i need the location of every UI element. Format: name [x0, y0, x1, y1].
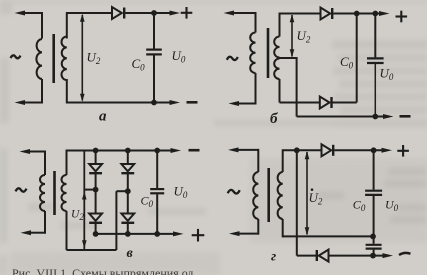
- svg-text:в: в: [127, 246, 134, 261]
- wire from node down to lower diode (circuit g): [296, 150, 298, 255]
- svg-text:а: а: [99, 109, 107, 125]
- transformer T3 secondary winding (circuit v): [66, 150, 68, 176]
- wire diode to + (circuit b): [333, 13, 381, 15]
- transformer T2 primary winding (circuit b): [255, 12, 257, 33]
- capacitor C0 (circuit v): [156, 151, 158, 189]
- top rail nodes (circuit v): [93, 148, 99, 154]
- bottom rail wire (circuit a): [67, 102, 171, 104]
- AC source symbol ~ (circuit a): [11, 55, 21, 58]
- capacitor C0 (circuit b): [374, 14, 376, 58]
- center tap wire (circuit b): [280, 57, 298, 59]
- input terminal arrow top-left (circuit b): [233, 12, 256, 14]
- input terminal arrow top-left (circuit a): [24, 12, 43, 14]
- transformer T4 secondary winding (circuit g): [282, 149, 284, 172]
- transformer T1 secondary winding (circuit a): [66, 12, 68, 39]
- plus terminal (circuit a): [181, 12, 193, 14]
- node on top rail right (circuit g): [371, 147, 377, 153]
- node3 bottom (circuit b): [372, 114, 378, 120]
- transformer T2 secondary winding lower half (circuit b): [274, 59, 279, 80]
- secondary bottom wire route (circuit v): [66, 211, 68, 250]
- transformer T2 secondary winding upper half (circuit b): [279, 13, 281, 37]
- diode D2 pointing left (circuit g): [316, 250, 318, 261]
- input terminal arrow bottom-left (circuit v): [30, 232, 46, 234]
- AC source symbol ~ (circuit g): [228, 190, 240, 194]
- capacitor lower (circuit g): [373, 236, 375, 243]
- AC source symbol ~ (circuit v): [16, 188, 27, 191]
- plus terminal (circuit v): [192, 234, 205, 236]
- svg-text:б: б: [270, 111, 278, 127]
- plus terminal (circuit g): [397, 150, 409, 152]
- minus terminal dash (circuit b): [400, 115, 411, 118]
- input terminal arrow bottom-left (circuit g): [239, 233, 259, 235]
- diode VD1 upper-left (circuit v): [89, 164, 102, 171]
- U2 measurement arrow (circuit b): [291, 15, 293, 57]
- plus terminal (circuit b): [396, 15, 408, 17]
- minus terminal dash (circuit g): [399, 253, 411, 255]
- svg-text:г: г: [271, 250, 276, 265]
- diode D1 upper (circuit b): [321, 8, 331, 20]
- diode VD2 upper-right (circuit v): [121, 164, 134, 171]
- transformer T4 primary winding (circuit g): [257, 149, 259, 172]
- lower branch: secondary bottom to diode D2 (circuit b): [280, 102, 321, 104]
- input terminal arrow bottom-left (circuit b): [238, 103, 256, 105]
- top rail wire (circuit b): [280, 13, 322, 15]
- transformer T3 primary winding (circuit v): [44, 151, 46, 176]
- wire: diode to + output with arrow (circuit a): [125, 12, 171, 14]
- bridge column 2 wire (circuit v): [127, 151, 129, 165]
- diode D2 lower (circuit b): [320, 97, 330, 109]
- transformer T4 core (circuit g): [267, 168, 270, 222]
- capacitor C0 upper (circuit g): [373, 150, 375, 189]
- transformer T2 core (circuit b): [267, 28, 270, 78]
- top rail wire (circuit g): [283, 149, 322, 151]
- capacitor C0 (circuit a): [153, 13, 155, 49]
- diode VD4 lower-right (circuit v): [121, 214, 134, 221]
- node2 (circuit b): [372, 11, 378, 17]
- diode D1 (circuit g): [322, 144, 332, 156]
- node bottom (circuit a): [151, 100, 157, 106]
- wire from D2 up to node1 (circuit b): [356, 14, 358, 103]
- center tap vertical down wire (circuit b): [296, 58, 298, 117]
- input terminal arrow bottom-left (circuit a): [24, 102, 43, 104]
- input terminal arrow top-left (circuit g): [238, 149, 259, 151]
- transformer T1 core (circuit a): [52, 34, 55, 83]
- bottom rail (circuit v): [96, 233, 175, 235]
- node top (circuit a): [151, 10, 157, 16]
- diode VD3 lower-left (circuit v): [89, 214, 102, 221]
- node1 (circuit b): [354, 11, 360, 17]
- input terminal arrow top-left (circuit v): [29, 151, 46, 153]
- bottom rail wire (circuit b): [297, 116, 385, 118]
- bridge column 1 wire (circuit v): [95, 151, 97, 165]
- U2 measurement arrow (circuit a): [81, 15, 83, 101]
- transformer T1 primary winding (circuit a): [41, 12, 43, 39]
- U2 measurement arrow (circuit g): [306, 152, 308, 235]
- transformer T3 core (circuit v): [53, 171, 56, 215]
- diode D1 (circuit a): [112, 7, 122, 19]
- middle nodes (circuit v): [93, 187, 99, 193]
- middle node (circuit g): [370, 234, 376, 240]
- AC input wire with U2 arrow (circuit v): [83, 151, 85, 251]
- middle rail wire (circuit g): [283, 235, 373, 237]
- bottom node (circuit g): [370, 253, 376, 259]
- bottom rail with diode D2 (circuit g): [297, 255, 316, 257]
- minus terminal dash (circuit a): [187, 101, 198, 104]
- top rail wire (circuit v): [67, 150, 173, 152]
- svg-text:Рис. VIII.1. Схемы выпрямлени: Рис. VIII.1. Схемы выпрямления од: [12, 266, 193, 275]
- node on top rail left (circuit g): [294, 147, 300, 153]
- wire: top rail secondary to diode (circuit a): [67, 12, 112, 14]
- AC source symbol ~ (circuit b): [227, 57, 238, 60]
- minus terminal dash (circuit v): [189, 149, 200, 152]
